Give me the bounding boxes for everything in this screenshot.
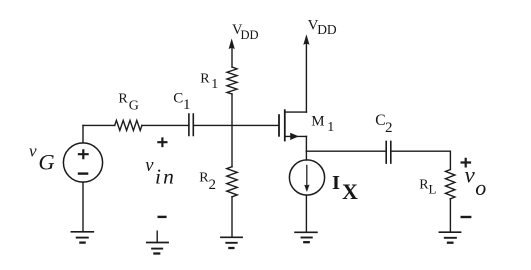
M1 drain horizontal: [285, 111, 307, 113]
ground below RL: [439, 232, 460, 243]
wire C2 to RL corner: [391, 151, 451, 169]
ground below vG: [71, 232, 93, 243]
IX arrow shaft: [306, 165, 308, 186]
plus sign inside vG: [78, 149, 89, 159]
wire RG to C1: [142, 124, 189, 126]
wire source node to IX: [305, 151, 307, 160]
svg-text:G: G: [129, 98, 139, 113]
svg-text:1: 1: [183, 97, 191, 113]
svg-text:R: R: [118, 92, 128, 107]
svg-text:X: X: [342, 179, 358, 204]
wire RL to ground: [449, 199, 451, 232]
capacitor C1: [189, 114, 193, 136]
M1 channel bar: [284, 110, 286, 140]
svg-text:v: v: [465, 163, 476, 188]
ground below R2: [221, 237, 242, 248]
svg-text:DD: DD: [241, 28, 259, 42]
minus sign vo: [461, 216, 472, 218]
M1 source vertical down: [305, 136, 307, 151]
ground below IX: [295, 232, 317, 242]
wire vG bottom vertical: [82, 182, 84, 232]
VDD arrow 1: [229, 40, 234, 49]
svg-text:1: 1: [211, 77, 218, 92]
resistor R1: [227, 48, 237, 125]
wire source node to C2: [306, 150, 386, 152]
M1 source arrowhead: [291, 133, 298, 139]
M1 source horizontal: [285, 135, 307, 137]
IX arrowhead: [305, 185, 309, 191]
voltage source vG: [63, 143, 102, 182]
svg-text:I: I: [332, 172, 340, 194]
minus sign vin: [158, 216, 167, 218]
resistor RL: [446, 170, 455, 199]
wire IX to ground: [305, 195, 307, 232]
wire C1 to gate: [193, 124, 278, 126]
svg-text:2: 2: [209, 177, 217, 193]
wire vG top vertical: [82, 125, 84, 142]
M1 gate bar: [278, 115, 280, 136]
svg-text:M: M: [311, 114, 324, 130]
floating ground for vin reference: [147, 231, 168, 253]
svg-text:v: v: [145, 156, 154, 176]
VDD arrow 2: [304, 35, 309, 44]
wire gate horizontal left segment: [83, 124, 115, 126]
svg-text:o: o: [475, 175, 486, 200]
svg-text:2: 2: [385, 120, 393, 136]
resistor R2: [227, 125, 237, 237]
plus sign vin: [157, 137, 167, 147]
M1 drain vertical to VDD: [305, 44, 307, 112]
svg-text:G: G: [38, 150, 54, 175]
resistor RG: [115, 120, 142, 130]
svg-text:C: C: [173, 91, 183, 107]
svg-text:v: v: [29, 141, 37, 160]
svg-text:L: L: [429, 182, 437, 197]
plus sign vo: [461, 158, 472, 168]
svg-text:DD: DD: [317, 22, 337, 37]
capacitor C2: [386, 141, 391, 163]
IX circle: [289, 160, 324, 195]
transistor M1: [279, 44, 307, 151]
svg-text:in: in: [155, 164, 176, 188]
svg-text:R: R: [200, 72, 210, 87]
current source IX: [289, 151, 324, 232]
svg-text:1: 1: [327, 120, 334, 135]
minus sign inside vG: [78, 172, 89, 174]
